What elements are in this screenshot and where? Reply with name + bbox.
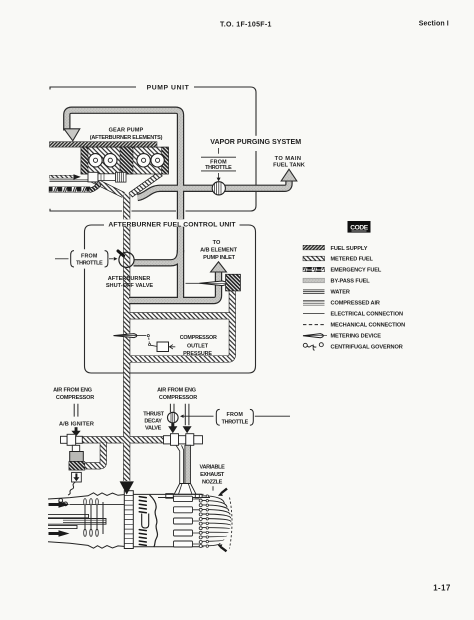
svg-text:AIR FROM ENG: AIR FROM ENG (53, 387, 92, 393)
metering device needle at pump-inlet block (186, 281, 227, 286)
igniter coil box (gray) (70, 452, 84, 462)
nozzle hinge circles (199, 495, 202, 548)
wire igniter manifold pipe (81, 436, 165, 443)
spray ring feet (166, 494, 174, 499)
svg-text:VARIABLE: VARIABLE (200, 464, 226, 470)
relief valve body (white box) (88, 172, 98, 182)
svg-text:T.O. 1F-105F-1: T.O. 1F-105F-1 (220, 21, 272, 28)
black arrow below thrust decay valve (171, 423, 174, 426)
svg-text:MECHANICAL CONNECTION: MECHANICAL CONNECTION (331, 323, 406, 329)
legend symbol water (303, 290, 325, 294)
flame holder center horseshoe (142, 514, 149, 529)
emergency fuel inlet bar (49, 187, 90, 193)
heading VAPOR PURGING SYSTEM (206, 136, 306, 151)
turbine exit flange (ladder band) (124, 491, 133, 549)
legend symbol emergency fuel (303, 267, 325, 272)
main pipe black arrowhead into engine (120, 481, 134, 494)
nozzle actuated position dashed arc (230, 498, 233, 549)
legend symbol metering device (303, 334, 323, 338)
wire by-pass loop bottom pipe (128, 355, 232, 360)
svg-text:TO MAIN: TO MAIN (275, 156, 302, 162)
wire main metered fuel pipe lower (123, 227, 130, 481)
mechanical link dashes + transducer to COMPRESSOR OUTLET PRESSURE (147, 335, 149, 337)
svg-text:WATER: WATER (331, 290, 350, 296)
spray ring bell flare (174, 484, 196, 495)
igniter fitting (union rects) (61, 436, 68, 443)
wire elbow into shut-off valve (134, 250, 181, 263)
svg-text:ELECTRICAL CONNECTION: ELECTRICAL CONNECTION (331, 312, 403, 318)
svg-text:THROTTLE: THROTTLE (76, 261, 103, 267)
emergency fuel curve into pump bowl (90, 184, 100, 191)
fuel spray bars (84, 499, 103, 537)
svg-text:COMPRESSED AIR: COMPRESSED AIR (331, 301, 380, 307)
igniter lead squiggle to engine (68, 482, 76, 495)
svg-text:1-17: 1-17 (433, 584, 451, 593)
legend CODE box (348, 221, 371, 233)
wire by-pass return pipe to pump inlet arrow (129, 271, 219, 301)
svg-text:A/B ELEMENT: A/B ELEMENT (200, 248, 237, 254)
black air arrow into igniter fitting (75, 427, 78, 431)
gray (by-pass) pipe network : dark under-strokes (67, 110, 289, 300)
transducer box (157, 342, 169, 352)
svg-text:OUTLET: OUTLET (187, 344, 209, 350)
electrical double line into pump (50, 180, 90, 182)
fuel supply inlet bar (top of pump) (50, 142, 158, 147)
gas flow arrow upper (49, 503, 59, 506)
legend symbol compressed air (303, 300, 325, 305)
svg-text:A/B IGNITER: A/B IGNITER (59, 421, 94, 427)
svg-text:NOZZLE: NOZZLE (202, 479, 223, 485)
label FROM THROTTLE (thrust decay) with parens (216, 409, 219, 425)
svg-text:PUMP UNIT: PUMP UNIT (147, 84, 190, 91)
svg-text:FROM: FROM (226, 412, 243, 418)
thrust decay valve circle (168, 412, 179, 423)
svg-text:COMPRESSOR: COMPRESSOR (180, 335, 217, 341)
wire main metered fuel pipe upper (123, 194, 130, 220)
svg-text:Section I: Section I (419, 20, 449, 27)
svg-text:METERED FUEL: METERED FUEL (331, 257, 374, 263)
svg-text:VALVE: VALVE (145, 426, 162, 432)
igniter plug box with down arrow (72, 472, 82, 482)
wire by-pass loop middle pipe (129, 316, 232, 320)
svg-text:AFTERBURNER: AFTERBURNER (108, 276, 151, 282)
legend symbol mechanical connection (303, 324, 325, 326)
svg-text:BY-PASS FUEL: BY-PASS FUEL (331, 279, 371, 285)
arrow TO A/B ELEMENT PUMP INLET (211, 262, 227, 272)
flame boundary wavy line (150, 495, 158, 547)
pump housing block (hatched, gears punched white) (81, 147, 169, 174)
svg-text:THROTTLE: THROTTLE (205, 165, 232, 171)
wire igniter L branch (85, 443, 103, 466)
svg-text:CENTRIFUGAL GOVERNOR: CENTRIFUGAL GOVERNOR (331, 345, 403, 351)
legend symbol fuel supply (303, 245, 325, 250)
pump housing inlet arrow (gray, points down) (64, 129, 80, 141)
svg-text:EMERGENCY FUEL: EMERGENCY FUEL (331, 268, 382, 274)
svg-text:GEAR PUMP: GEAR PUMP (109, 127, 144, 133)
vapor purging metering valve (212, 182, 225, 195)
legend symbol metered fuel (303, 256, 325, 261)
throttle linkage to vapor valve (218, 148, 220, 154)
throttle linkage into shut-off valve (55, 258, 69, 260)
hatched (metered fuel) pipe network : dark under-strokes (81, 194, 232, 482)
svg-text:COMPRESSOR: COMPRESSOR (56, 395, 94, 401)
pump side walls (81, 147, 88, 174)
svg-text:FUEL SUPPLY: FUEL SUPPLY (331, 246, 368, 252)
svg-text:METERING DEVICE: METERING DEVICE (331, 334, 382, 340)
svg-text:FROM: FROM (81, 254, 98, 260)
svg-text:PRESSURE: PRESSURE (183, 351, 212, 357)
shut-off valve lever (black) (118, 251, 124, 256)
spray ring feed pipe (stippled) (185, 445, 191, 484)
svg-text:THRUST: THRUST (143, 412, 164, 418)
legend symbol electrical connection (303, 313, 325, 315)
afterburner shut-off valve (119, 252, 134, 267)
wire vapor purge pipe to main tank (138, 180, 290, 198)
black arrow below air pair 2 (183, 426, 192, 433)
wire by-pass loop right vertical (229, 291, 236, 356)
flame holder gutter dashes (139, 497, 146, 546)
pump bowl walls (92, 174, 161, 196)
nozzle motion arrow bottom (221, 547, 227, 551)
svg-text:DECAY: DECAY (144, 419, 162, 425)
turbine duct inner lines left (70, 504, 131, 506)
metering device needle on main pipe (compressor sense) (114, 334, 147, 338)
compressed air pair 1 into thrust decay valve (170, 404, 174, 412)
gas flow arrow lower (49, 532, 59, 535)
svg-text:COMPRESSOR: COMPRESSOR (159, 395, 197, 401)
svg-text:CODE: CODE (350, 225, 368, 232)
igniter stack: cylinder (72, 445, 79, 451)
pump center pillar (120, 147, 133, 174)
liner segment rectangles (174, 496, 193, 547)
svg-text:VAPOR PURGING SYSTEM: VAPOR PURGING SYSTEM (210, 138, 301, 146)
engine upper case contour (48, 493, 124, 499)
afterburner fuel control unit box (85, 225, 256, 373)
hatched pipe network : pattern strokes (81, 194, 232, 482)
compressed air double line (left) (74, 404, 78, 417)
pump unit dashed enclosure box (50, 87, 256, 211)
compressed air pair 2 (185, 404, 189, 426)
svg-text:FUEL TANK: FUEL TANK (273, 163, 306, 169)
relief valve spring block (116, 172, 127, 182)
nozzle motion arrow top (222, 489, 228, 493)
svg-text:THROTTLE: THROTTLE (222, 419, 249, 425)
arrow TO MAIN FUEL TANK (281, 169, 297, 181)
svg-text:EXHAUST: EXHAUST (200, 472, 225, 478)
svg-text:(AFTERBURNER ELEMENTS): (AFTERBURNER ELEMENTS) (90, 135, 163, 141)
gear pump element circles (89, 154, 165, 167)
engine lower case contour (48, 542, 124, 548)
engine afterburner section cross-section (48, 493, 204, 548)
svg-text:PUMP INLET: PUMP INLET (203, 255, 236, 261)
label FROM THROTTLE (shut-off valve) with parens (71, 251, 74, 267)
relief valve piston (98, 174, 116, 181)
legend symbol centrifugal governor (303, 343, 323, 350)
manifold down pipes (176, 445, 184, 484)
hatched block (needle seat, right loop) (226, 274, 241, 291)
nozzle leaves (202, 496, 231, 546)
svg-text:SHUT-OFF VALVE: SHUT-OFF VALVE (106, 283, 154, 289)
throttle linkage to thrust decay valve (180, 415, 184, 418)
wire pump housing loop + descent to control unit (67, 110, 181, 219)
relief valve: thin hatched inlet line (50, 175, 75, 178)
gray pipe network : gray fill strokes (67, 110, 289, 300)
svg-text:TO: TO (213, 240, 221, 246)
igniter hatched base (69, 462, 85, 471)
svg-text:AIR FROM ENG: AIR FROM ENG (157, 387, 196, 393)
relief valve inlet arrow (black) (74, 174, 81, 179)
legend symbol by-pass fuel (303, 278, 325, 283)
spark governor circles at engine case (59, 499, 63, 503)
spray manifold fittings (164, 436, 171, 444)
